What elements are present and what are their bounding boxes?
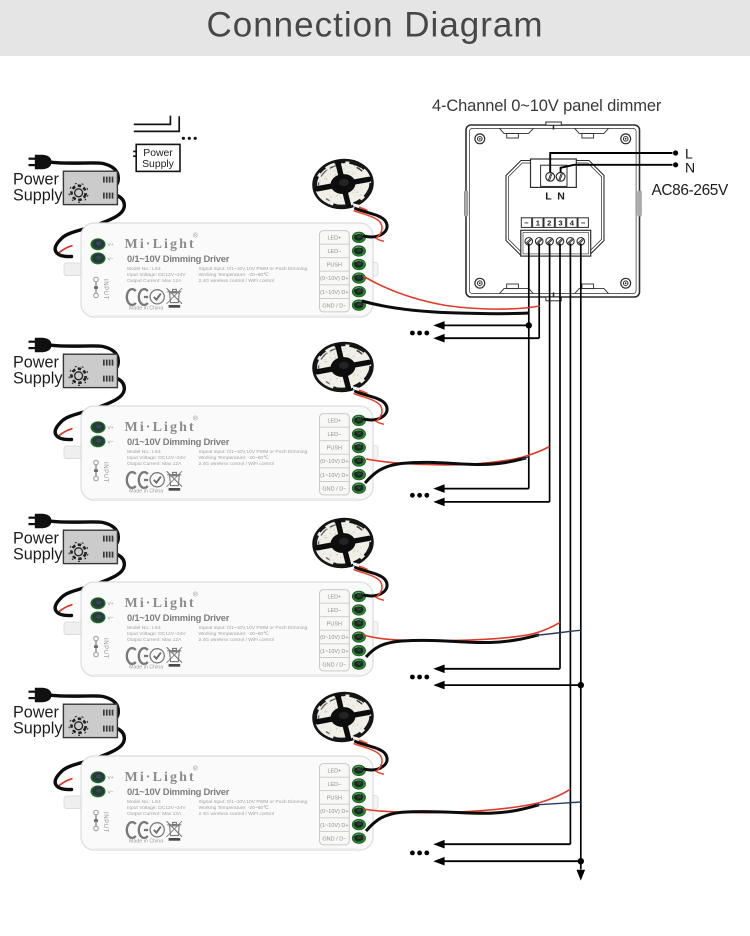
svg-text:Connection Diagram: Connection Diagram	[206, 6, 543, 45]
svg-text:2: 2	[547, 218, 551, 227]
svg-text:−: −	[581, 218, 586, 227]
svg-text:Supply: Supply	[13, 187, 63, 205]
svg-text:Supply: Supply	[13, 720, 63, 738]
svg-text:Supply: Supply	[13, 546, 63, 564]
svg-text:N: N	[557, 191, 565, 203]
svg-text:Power: Power	[143, 148, 173, 159]
svg-text:N: N	[685, 160, 695, 176]
svg-text:Supply: Supply	[13, 370, 63, 388]
svg-text:Supply: Supply	[142, 159, 175, 170]
svg-text:−: −	[524, 218, 529, 227]
svg-text:4-Channel 0~10V panel dimmer: 4-Channel 0~10V panel dimmer	[432, 97, 662, 115]
svg-text:L: L	[545, 191, 552, 203]
svg-text:AC86-265V: AC86-265V	[652, 182, 730, 199]
svg-text:3: 3	[558, 218, 562, 227]
